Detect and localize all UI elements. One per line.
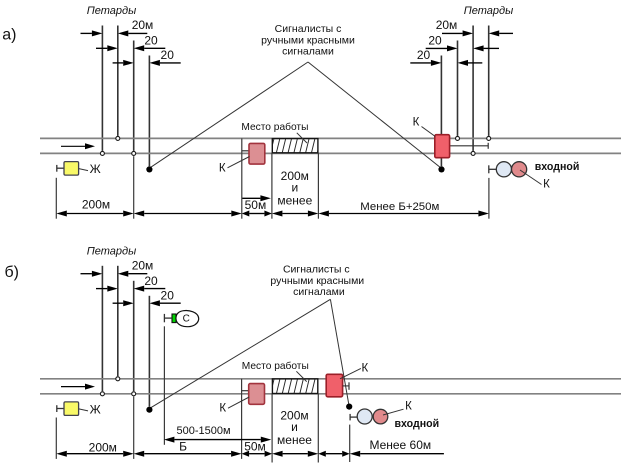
- track rail top (b): [40, 378, 621, 380]
- label K leader (b-right): [340, 368, 361, 378]
- dimension 20 middle (a-left): [96, 47, 107, 49]
- label K leader (b-left): [228, 397, 249, 408]
- dimension small span (b): [326, 453, 342, 455]
- svg-text:200м: 200м: [89, 440, 117, 454]
- svg-text:входной: входной: [395, 418, 440, 430]
- petard wire 2 (a-right): [457, 41, 459, 136]
- svg-text:Сигналисты с: Сигналисты с: [275, 23, 342, 35]
- svg-text:и: и: [291, 180, 298, 194]
- svg-text:200м: 200м: [82, 198, 110, 212]
- svg-text:Петарды: Петарды: [464, 5, 513, 17]
- signalman dot left (b): [146, 407, 152, 413]
- svg-text:20: 20: [161, 48, 175, 62]
- svg-text:Менее Б+250м: Менее Б+250м: [360, 201, 439, 213]
- signal K mast (b-right): [343, 385, 349, 387]
- svg-text:Менее 60м: Менее 60м: [369, 438, 431, 452]
- rail contact circles (a): [100, 151, 104, 155]
- svg-text:К: К: [543, 178, 550, 190]
- svg-text:входной: входной: [535, 161, 580, 173]
- svg-text:менее: менее: [277, 194, 312, 208]
- svg-text:и: и: [291, 420, 298, 434]
- signal K (b-right): [326, 374, 342, 397]
- dimension work zone width (a): [282, 213, 308, 215]
- svg-text:Петарды: Петарды: [87, 245, 136, 257]
- leader to right signalman (b): [330, 299, 349, 405]
- dimension 20 middle (a-right): [426, 47, 447, 49]
- svg-text:20: 20: [428, 34, 442, 48]
- leader to left signalman (a): [151, 62, 309, 167]
- arrow above 50m (a): [242, 197, 260, 199]
- dimension 200m (a): [67, 213, 123, 215]
- extension line hatch-left (a): [271, 153, 273, 219]
- petard wire 1 (a-left): [101, 26, 103, 151]
- petard wire 3 (b-left): [133, 281, 135, 391]
- work zone leader (a): [297, 133, 307, 143]
- signal C (b): [163, 314, 165, 322]
- extension line entrance (a): [488, 178, 490, 219]
- svg-text:500-1500м: 500-1500м: [176, 425, 230, 437]
- extension line hatch-right (b): [317, 394, 319, 463]
- extension line hatch-right (a): [317, 153, 319, 219]
- dimension work zone width (b): [283, 453, 308, 455]
- rail contact circles (b): [100, 392, 104, 396]
- signal K mast / extension (b-left): [241, 379, 243, 459]
- signalman dot right (a): [438, 166, 444, 172]
- petard wire 4 (a-right): [488, 26, 490, 136]
- dimension 50m (b): [249, 453, 265, 455]
- svg-text:20: 20: [144, 34, 158, 48]
- svg-text:К: К: [413, 116, 420, 128]
- dimension 20m top (a-left): [81, 32, 92, 34]
- signal K (a-left): [249, 143, 265, 164]
- work zone leader (b): [296, 371, 306, 381]
- dimension 20 middle (b-left): [96, 288, 107, 290]
- petard wire 4 (b-left): [148, 296, 150, 407]
- svg-text:а): а): [2, 26, 16, 43]
- dimension unlabeled (a): [144, 213, 231, 215]
- signal Ж mast (b): [56, 405, 58, 412]
- label Ж leader (b): [79, 409, 88, 411]
- svg-text:Место работы: Место работы: [241, 121, 308, 133]
- signalman dot left (a): [146, 166, 152, 172]
- svg-text:20м: 20м: [436, 18, 458, 32]
- dimension 500-1500m (b): [174, 439, 260, 441]
- extension line x=133.7 (b): [133, 397, 135, 459]
- extension line entrance (b): [349, 425, 351, 462]
- leader to left signalman (b): [151, 299, 331, 408]
- svg-text:менее: менее: [277, 433, 312, 447]
- petard wire 3 (a-right): [472, 26, 474, 151]
- svg-text:К: К: [361, 362, 368, 374]
- track rail top (a): [40, 137, 621, 139]
- extension line x=133.7 (a): [133, 156, 135, 219]
- dimension B (b): [144, 453, 231, 455]
- svg-text:20м: 20м: [132, 18, 154, 32]
- signalman dot right (b): [346, 404, 352, 410]
- svg-text:сигналами: сигналами: [282, 46, 334, 58]
- svg-text:Место работы: Место работы: [242, 360, 309, 372]
- svg-text:ручными красными: ручными красными: [261, 34, 355, 46]
- track rail bottom (b): [40, 393, 621, 395]
- petard wire 2 (b-left): [117, 266, 119, 376]
- direction arrow (b): [61, 386, 85, 388]
- svg-text:Ж: Ж: [90, 162, 101, 176]
- dimension Menee 60m (b): [360, 453, 444, 455]
- svg-text:50м: 50м: [244, 440, 266, 454]
- signal Ж (a): [64, 162, 79, 176]
- dimension 20m top (a-right): [442, 32, 463, 34]
- svg-text:Сигналисты с: Сигналисты с: [283, 264, 350, 276]
- dimension 200m (b): [67, 453, 123, 455]
- signal K mast (a-right): [450, 145, 489, 147]
- svg-text:К: К: [219, 162, 226, 174]
- label K leader (a-left): [228, 157, 250, 168]
- entrance signal (a): [488, 165, 490, 173]
- svg-text:20: 20: [417, 48, 431, 62]
- dimension 20m top (b-left): [81, 273, 92, 275]
- dimension 20 lower (a-right): [410, 62, 431, 64]
- label K entrance leader (a): [520, 170, 542, 185]
- svg-text:К: К: [219, 403, 226, 415]
- label K entrance leader (b): [383, 409, 404, 415]
- signal K (b-left): [249, 384, 265, 405]
- svg-text:Петарды: Петарды: [87, 5, 136, 17]
- signal K (a-right): [435, 135, 450, 158]
- entrance signal (b): [349, 414, 351, 421]
- svg-text:Ж: Ж: [90, 402, 101, 416]
- extension line signal C (b): [163, 326, 165, 445]
- extension line left 200m (a): [55, 178, 57, 219]
- petard wire 3 (a-left): [133, 41, 135, 151]
- label K leader (a-right): [422, 127, 436, 137]
- svg-text:К: К: [405, 401, 412, 413]
- extension line hatch-left (b): [271, 394, 273, 463]
- svg-text:20: 20: [144, 274, 158, 288]
- direction arrow (a): [61, 145, 85, 147]
- dimension Menee B+250m (a): [329, 213, 479, 215]
- svg-text:сигналами: сигналами: [293, 286, 345, 298]
- petard wire 1 (b-left): [101, 266, 103, 391]
- track rail bottom (a): [40, 152, 621, 154]
- signal Ж mast (a): [56, 165, 58, 172]
- svg-text:Б: Б: [179, 440, 187, 454]
- svg-text:20: 20: [161, 289, 175, 303]
- signal Ж (b): [64, 402, 79, 416]
- label Ж leader (a): [79, 169, 88, 171]
- svg-text:20м: 20м: [132, 258, 154, 272]
- svg-text:б): б): [5, 264, 20, 281]
- dimension 20 lower (a-left): [113, 62, 124, 64]
- dimension 20 lower (b-left): [113, 302, 124, 304]
- signal K mast / extension (a-left): [241, 138, 243, 218]
- svg-text:С: С: [183, 314, 190, 325]
- dimension 50m (a): [249, 213, 264, 215]
- leader to right signalman (a): [308, 62, 441, 168]
- petard wire 2 (a-left): [117, 26, 119, 136]
- petard wire 4 (a-left): [148, 56, 150, 167]
- extension line left 200m (b): [55, 418, 57, 459]
- petard wire 1 (a-right): [440, 56, 442, 167]
